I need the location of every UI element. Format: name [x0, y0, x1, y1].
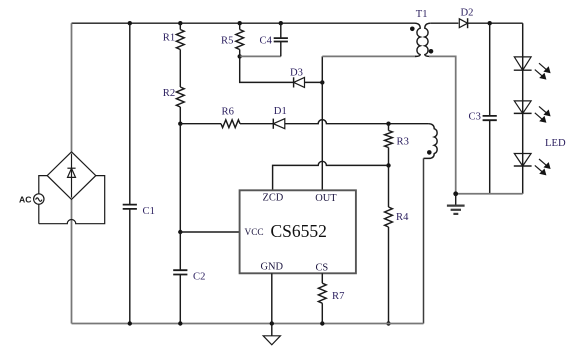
label LED	[545, 138, 566, 149]
wire D2 to LED string	[468, 22, 523, 24]
wire R6/D1 line start	[180, 123, 221, 125]
wire top rail	[72, 22, 416, 24]
svg-text:T1: T1	[416, 9, 428, 20]
capacitor C3	[483, 23, 497, 194]
svg-text:C1: C1	[143, 206, 155, 217]
pin label ZCD	[263, 193, 284, 204]
node R3 bottom / ZCD junction	[386, 163, 390, 167]
wire left rail	[71, 23, 73, 323]
bridge rectifier diamond	[47, 152, 96, 200]
node C3 top junction	[488, 21, 492, 25]
node R5 bottom junction	[238, 54, 242, 58]
wire D1 to aux winding with hop over OUT riser	[285, 120, 429, 124]
pin CS wire	[321, 273, 323, 283]
phase dot secondary	[429, 49, 434, 54]
wire OUT riser	[321, 56, 323, 190]
pin label CS	[316, 262, 329, 273]
resistor R2	[176, 87, 184, 124]
svg-text:CS: CS	[316, 262, 329, 273]
svg-text:R6: R6	[222, 106, 234, 117]
pin GND wire	[271, 273, 273, 323]
svg-text:VCC: VCC	[245, 228, 264, 238]
label R6	[222, 106, 234, 117]
svg-text:C3: C3	[469, 111, 481, 122]
svg-text:R3: R3	[397, 137, 409, 148]
node bottom rail / R7	[320, 321, 324, 325]
svg-text:OUT: OUT	[315, 193, 337, 204]
label C1	[143, 206, 155, 217]
wire ground node line	[456, 193, 523, 195]
svg-text:D3: D3	[290, 67, 303, 78]
transformer T1 secondary winding	[425, 23, 430, 56]
node top rail / C4 junction	[279, 21, 283, 25]
resistor R3	[385, 124, 393, 166]
LED D6 (bottom)	[514, 154, 551, 176]
LED D5 (middle)	[514, 101, 551, 123]
phase dot primary	[410, 27, 415, 32]
resistor R1	[176, 23, 184, 49]
label R7	[332, 291, 344, 302]
LED D4 (top)	[514, 57, 551, 80]
wire secondary top to D2	[430, 22, 458, 24]
wire primary bottom (gray)	[322, 55, 416, 57]
label D1	[274, 106, 287, 117]
wire LED string vertical	[522, 23, 524, 194]
node top rail / R5 junction	[238, 21, 242, 25]
label R3	[397, 137, 409, 148]
AC source	[34, 194, 44, 204]
svg-text:R2: R2	[163, 88, 175, 99]
wire R2 junction down to VCC junction	[179, 124, 181, 232]
wire AC return with hop over bridge output	[39, 176, 105, 224]
wire aux bottom to bottom rail	[423, 158, 425, 323]
capacitor C1	[123, 23, 137, 323]
svg-text:C2: C2	[193, 271, 205, 282]
label R5	[221, 36, 233, 47]
capacitor C4	[274, 23, 288, 56]
diode D1	[273, 119, 285, 129]
label R2	[163, 88, 175, 99]
wire ZCD line with hop over OUT riser	[273, 161, 389, 190]
IC U1 CS6552 box	[240, 190, 356, 273]
diode D3	[294, 77, 305, 87]
capacitor C2	[173, 232, 187, 324]
wire R6 to D1	[240, 123, 273, 125]
node bottom rail / C2	[178, 321, 182, 325]
resistor R6	[221, 120, 240, 128]
node bottom rail / GND pin	[270, 321, 274, 325]
transformer T1 primary winding	[415, 23, 420, 56]
label D3	[290, 67, 303, 78]
node R2 / R6 junction	[178, 122, 182, 126]
label C3	[469, 111, 481, 122]
svg-text:GND: GND	[261, 262, 284, 273]
wire bottom rail	[72, 323, 424, 325]
node VCC junction	[178, 230, 182, 234]
label D2	[461, 8, 474, 19]
node top rail / C1 junction	[128, 21, 132, 25]
wire R5 bottom to C4 bottom	[240, 55, 281, 57]
node top rail / R1 junction	[178, 21, 182, 25]
svg-text:R5: R5	[221, 36, 233, 47]
label R4	[396, 212, 409, 223]
phase dot aux	[427, 150, 432, 155]
aux winding	[424, 124, 438, 159]
label R1	[163, 33, 175, 44]
bridge diode	[67, 154, 75, 198]
wire VCC to IC	[180, 231, 239, 233]
svg-text:LED: LED	[545, 138, 566, 149]
node D3 / OUT riser junction	[320, 80, 324, 84]
svg-text:D1: D1	[274, 106, 287, 117]
pin label GND	[261, 262, 284, 273]
svg-text:CS6552: CS6552	[271, 221, 327, 241]
wire R5 junction down and right to D3	[240, 56, 323, 82]
label C2	[193, 271, 205, 282]
resistor R7	[318, 283, 326, 323]
node R3 top junction	[386, 122, 390, 126]
svg-text:C4: C4	[260, 36, 273, 47]
pin label OUT	[315, 193, 337, 204]
node ground junction	[453, 191, 458, 196]
svg-text:ZCD: ZCD	[263, 193, 284, 204]
svg-text:R7: R7	[332, 291, 344, 302]
resistor R4	[385, 165, 393, 323]
diode D2	[459, 18, 467, 28]
node R4 bottom junction	[386, 321, 390, 325]
svg-text:AC: AC	[19, 195, 31, 205]
pin label VCC	[245, 228, 264, 238]
label AC	[19, 195, 31, 205]
svg-text:R4: R4	[396, 212, 409, 223]
label C4	[260, 36, 273, 47]
label T1	[416, 9, 428, 20]
svg-text:R1: R1	[163, 33, 175, 44]
resistor R5	[236, 23, 244, 56]
wire bridge left corner to AC source	[39, 176, 47, 224]
svg-text:D2: D2	[461, 8, 474, 19]
wire secondary bottom to ground node	[429, 56, 456, 193]
earth ground symbol	[447, 194, 465, 214]
wire R1 to R2	[179, 50, 181, 88]
node bottom rail / C1	[128, 321, 132, 325]
signal ground triangle	[263, 324, 280, 345]
IC part number CS6552	[271, 221, 327, 241]
